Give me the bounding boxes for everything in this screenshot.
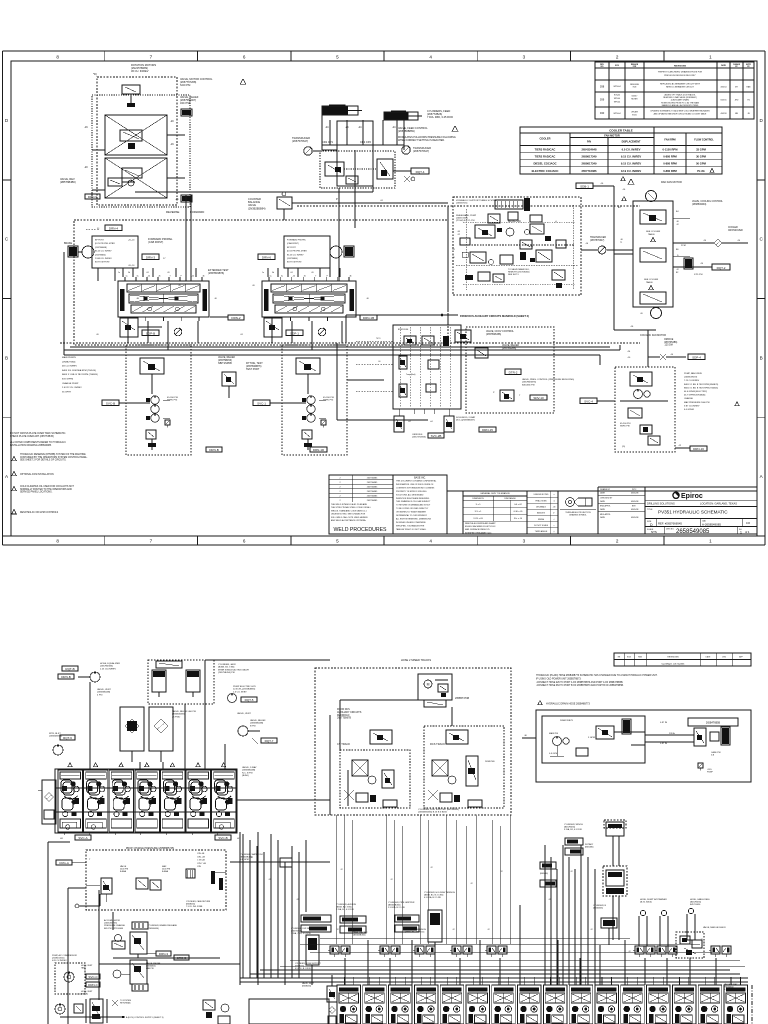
valve motor control label bbox=[180, 77, 246, 105]
svg-text:0-880 RPM: 0-880 RPM bbox=[663, 155, 677, 159]
tower bracing cylinder upper bbox=[604, 820, 626, 866]
tank recirc label bbox=[353, 931, 368, 937]
svg-text:INFORMATION. USE OR DISCLOSURE: INFORMATION. USE OR DISCLOSURE OF bbox=[396, 483, 434, 486]
svg-text:-16: -16 bbox=[214, 298, 217, 300]
svg-text:MANIFOLD AND ALL ACCESSORY ITE: MANIFOLD AND ALL ACCESSORY ITEMS bbox=[662, 104, 699, 107]
svg-text:(D): (D) bbox=[622, 446, 625, 448]
svg-text:X.XX ±.03: X.XX ±.03 bbox=[473, 518, 483, 520]
svg-text:(2657B45B76): (2657B45B76) bbox=[522, 382, 536, 384]
svg-text:RQT-7: RQT-7 bbox=[265, 739, 274, 743]
svg-text:IN INCHES UNLESS OTHERWISE: IN INCHES UNLESS OTHERWISE bbox=[396, 522, 426, 524]
svg-text:(B456): (B456) bbox=[242, 775, 249, 777]
left propel manifold bbox=[118, 276, 209, 322]
right propel manifold bbox=[262, 276, 356, 322]
size ref cad row bbox=[645, 519, 757, 527]
cylinder brake release bbox=[130, 922, 189, 960]
svg-text:SDP-B: SDP-B bbox=[146, 331, 155, 335]
svg-text:7.25 CU.IN/REV: 7.25 CU.IN/REV bbox=[684, 380, 700, 382]
svg-text:-20: -20 bbox=[640, 313, 643, 315]
svg-text:DRN-1B: DRN-1B bbox=[363, 316, 374, 320]
svg-text:STD PSI: STD PSI bbox=[694, 274, 703, 276]
svg-text:(2657576647): (2657576647) bbox=[292, 139, 308, 143]
svg-text:-12: -12 bbox=[676, 269, 679, 271]
prop charge pressure label bbox=[126, 847, 175, 850]
svg-text:SNPD PSI: SNPD PSI bbox=[620, 426, 630, 428]
charge box caption bbox=[186, 900, 211, 908]
svg-text:3: 3 bbox=[523, 539, 526, 544]
svg-text:(2656B456): (2656B456) bbox=[148, 928, 159, 930]
svg-text:4.5 B1A, B 2.5 RD: 4.5 B1A, B 2.5 RD bbox=[424, 896, 441, 899]
svg-text:B-BBA: B-BBA bbox=[120, 870, 127, 873]
svg-text:DIMENSION: DIMENSION bbox=[472, 498, 484, 500]
svg-text:SEE SHEET 2 FOR DETAILS OF CIR: SEE SHEET 2 FOR DETAILS OF CIRCUITS. bbox=[20, 459, 67, 462]
svg-text:OR INDIRECTLY IN ANY MANNER: OR INDIRECTLY IN ANY MANNER bbox=[396, 511, 426, 514]
svg-text:HOSES MOVED FROM P.T.O. AT THE: HOSES MOVED FROM P.T.O. AT THE MAIN bbox=[661, 101, 700, 104]
RQT-2 tagbox bbox=[673, 255, 730, 276]
svg-text:PLUG: PLUG bbox=[697, 169, 704, 173]
svg-text:-12: -12 bbox=[390, 879, 393, 881]
brake release lower cluster bbox=[113, 960, 161, 991]
svg-text:22.6CW--(2655B4B56): 22.6CW--(2655B4B56) bbox=[233, 689, 255, 691]
svg-text:PCM: PCM bbox=[681, 245, 686, 247]
tank inlet valve column bbox=[302, 975, 337, 1024]
svg-text:B: B bbox=[5, 356, 8, 361]
note denotes bbox=[12, 509, 59, 514]
svg-text:-12: -12 bbox=[700, 939, 703, 941]
note general arrangement bbox=[10, 441, 66, 447]
svg-text:4b: 4b bbox=[203, 276, 205, 278]
svg-text:MAIN PUMPS: MAIN PUMPS bbox=[62, 356, 76, 359]
brake sav label bbox=[508, 215, 542, 223]
svg-text:9.15 CU. IN/REV: 9.15 CU. IN/REV bbox=[621, 162, 642, 166]
pump electric label bbox=[228, 686, 258, 703]
svg-text:Epiroc: Epiroc bbox=[681, 493, 703, 500]
svg-text:33 GPM: 33 GPM bbox=[696, 148, 707, 152]
SDP-4 tagbox bbox=[688, 354, 705, 360]
svg-text:(2TB6. B1. 4.5 ROD): (2TB6. B1. 4.5 ROD) bbox=[405, 932, 425, 934]
rotation relief small comps bbox=[175, 109, 192, 202]
svg-text:WTC: WTC bbox=[632, 489, 637, 491]
svg-text:RAD FAN MOTOR: RAD FAN MOTOR bbox=[661, 181, 682, 184]
svg-text:6/03/17: 6/03/17 bbox=[632, 96, 638, 98]
svg-text:DWG NO.: DWG NO. bbox=[666, 529, 675, 531]
svg-text:CS TRACK: CS TRACK bbox=[337, 742, 350, 746]
svg-text:-20: -20 bbox=[167, 272, 170, 274]
main pump group 2 bbox=[282, 345, 347, 455]
svg-text:SVC-B: SVC-B bbox=[106, 401, 115, 405]
svg-text:INSTALLATION DRAWING 265854908: INSTALLATION DRAWING 2658549085. bbox=[10, 444, 52, 447]
right manifold sub valve bbox=[264, 318, 326, 337]
svg-text:265B5T4B: 265B5T4B bbox=[485, 761, 495, 763]
svg-text:Upd Mfgd 1 with Sytt366: Upd Mfgd 1 with Sytt366 bbox=[662, 662, 685, 665]
from dcs aux label sheet2 bbox=[337, 708, 362, 720]
svg-text:BASE INC.: BASE INC. bbox=[414, 477, 426, 480]
svg-text:1a: 1a bbox=[126, 276, 128, 278]
tower bracing cylinder lower bbox=[603, 866, 627, 940]
svg-text:CYLINDER, JACK: CYLINDER, JACK bbox=[218, 663, 236, 666]
svg-text:DRAWING SYMBOL: DRAWING SYMBOL bbox=[569, 514, 586, 517]
sheet 1 border frame bbox=[3, 51, 766, 545]
bank left comps bbox=[38, 780, 56, 824]
svg-text:3: 3 bbox=[523, 54, 526, 59]
svg-text:PRESSURE CHARGE: PRESSURE CHARGE bbox=[104, 924, 126, 927]
valve rev label group bbox=[60, 177, 135, 199]
DRN-1B tagbox bbox=[360, 315, 377, 320]
svg-text:1a: 1a bbox=[118, 272, 120, 274]
svg-text:MTBR SINGLE ACTING VALVE: MTBR SINGLE ACTING VALVE bbox=[218, 668, 249, 671]
sheet2 mini revision table bbox=[614, 653, 751, 666]
svg-text:B465 3 1 BB. B 7B74 RPM (B56B7: B465 3 1 BB. B 7B74 RPM (B56B76) bbox=[684, 384, 719, 386]
svg-text:4: 4 bbox=[429, 539, 432, 544]
long wire aux to left bbox=[337, 315, 450, 420]
svg-text:A-2658549085: A-2658549085 bbox=[702, 522, 721, 526]
svg-text:UPDATED SCHEMATIC TO ADD NEW C: UPDATED SCHEMATIC TO ADD NEW COLD WEATHE… bbox=[650, 110, 710, 113]
svg-text:WELD PROCEDURES: WELD PROCEDURES bbox=[333, 527, 387, 533]
svg-text:0.85 CU IN/REV: 0.85 CU IN/REV bbox=[52, 960, 67, 962]
svg-text:HYDRAULIC SUPPORT TABLE SYSTEM: HYDRAULIC SUPPORT TABLE SYSTEM bbox=[456, 199, 497, 202]
svg-text:B-BBA: B-BBA bbox=[162, 870, 169, 873]
svg-text:30+ ±.10: 30+ ±.10 bbox=[514, 518, 523, 520]
center cylinders cluster bbox=[301, 915, 331, 975]
svg-text:OPTIONAL DCS INSTALLATION: OPTIONAL DCS INSTALLATION bbox=[20, 473, 54, 476]
svg-text:B65 PSI NITROGEN: B65 PSI NITROGEN bbox=[104, 928, 124, 930]
feed cylinder 2 bbox=[384, 111, 422, 121]
svg-text:LOCATION: GARLAND, TEXAS: LOCATION: GARLAND, TEXAS bbox=[700, 502, 737, 506]
svg-text:COC/AOC FAN MOTOR: COC/AOC FAN MOTOR bbox=[640, 334, 666, 337]
svg-text:TIER3 RAD/CAC: TIER3 RAD/CAC bbox=[535, 148, 556, 152]
hose 2 speed tracks label bbox=[401, 658, 431, 662]
svg-text:-12: -12 bbox=[268, 879, 271, 881]
drawn by block bbox=[598, 488, 645, 519]
svg-text:COOLER: COOLER bbox=[728, 227, 738, 229]
center label cluster 1 bbox=[291, 928, 319, 935]
svg-text:B465 3 B. B16296A RPM (756516): B465 3 B. B16296A RPM (756516) bbox=[62, 369, 96, 372]
feed cylinder 1 bbox=[322, 105, 362, 116]
svg-text:COLD CLIMATES OIL USED FOR COO: COLD CLIMATES OIL USED FOR COOLANTS NOT bbox=[20, 485, 74, 488]
svg-text:CHECKED BY: CHECKED BY bbox=[600, 497, 613, 499]
svg-text:-24: -24 bbox=[192, 276, 195, 278]
svg-text:36 CU. IN/REV: 36 CU. IN/REV bbox=[131, 69, 149, 73]
svg-text:4: 4 bbox=[429, 54, 432, 59]
svg-text:Temp (Bod): Temp (Bod) bbox=[406, 374, 416, 376]
cylinder water inj label bbox=[240, 853, 292, 867]
svg-text:IF USING OLD POWER UNIT 265B5T: IF USING OLD POWER UNIT 265B5T6B73: bbox=[536, 678, 582, 680]
winch label bbox=[564, 824, 583, 831]
svg-text:THE WELD SYMBOLS A B1 Z1-BB AR: THE WELD SYMBOLS A B1 Z1-BB ARE bbox=[331, 503, 368, 506]
svg-text:WELDS. STANDARD CODE: AWS D1.1: WELDS. STANDARD CODE: AWS D1.1 bbox=[331, 509, 368, 512]
svg-text:0.97 IN: 0.97 IN bbox=[660, 743, 667, 745]
svg-text:EDGES. MACHINED FILLETS R.03: EDGES. MACHINED FILLETS R.03 bbox=[465, 525, 495, 528]
propel dashed enclosure bbox=[74, 220, 448, 345]
svg-text:SPECIFIED. TOLERANCES PER: SPECIFIED. TOLERANCES PER bbox=[396, 524, 425, 527]
svg-text:26575B4B5: 26575B4B5 bbox=[367, 491, 378, 493]
bottom right dashdot border bbox=[724, 983, 752, 1024]
svg-text:AND UPDATED FAN DRIVE CIRCUITS: AND UPDATED FAN DRIVE CIRCUITS AND COOLE… bbox=[654, 113, 707, 116]
main pump group 1 bbox=[126, 345, 191, 455]
svg-text:B665 3 1 BB. B 7B74 RPM (756B2: B665 3 1 BB. B 7B74 RPM (756B26) bbox=[62, 374, 98, 376]
svg-text:(B654B6): (B654B6) bbox=[540, 873, 548, 875]
svg-text:SEE COOLER: SEE COOLER bbox=[644, 279, 659, 281]
svg-text:4b: 4b bbox=[350, 276, 352, 278]
svg-text:DIM RANGE: DIM RANGE bbox=[504, 497, 516, 500]
title row bbox=[645, 509, 757, 519]
svg-text:SVC-B: SVC-B bbox=[218, 836, 227, 840]
svg-text:(2658549094): (2658549094) bbox=[692, 204, 707, 206]
svg-text:ANGLES: ANGLES bbox=[537, 512, 545, 515]
svg-text:CYLINDER, WATER INJ: CYLINDER, WATER INJ bbox=[240, 853, 263, 856]
svg-text:CHARGE PUMP: CHARGE PUMP bbox=[62, 382, 79, 385]
svg-text:(B654B6): (B654B6) bbox=[585, 847, 594, 849]
svg-text:CO: CO bbox=[746, 521, 751, 525]
svg-text:& AUXILIARY DRAIN.: & AUXILIARY DRAIN. bbox=[671, 99, 690, 102]
svg-text:(265B3B44B): (265B3B44B) bbox=[250, 723, 263, 725]
SVC-4 tagbox bbox=[580, 398, 615, 404]
aux valves dashed enclosure bbox=[448, 315, 554, 413]
svg-text:03/05/08: 03/05/08 bbox=[631, 517, 638, 519]
svg-text:VALVE, PRES. CONTROL (PRESSURE: VALVE, PRES. CONTROL (PRESSURE REDUCING) bbox=[522, 378, 574, 381]
svg-text:8: 8 bbox=[56, 54, 59, 59]
svg-text:CR1 CP1: CR1 CP1 bbox=[322, 140, 334, 144]
svg-text:HOSE, CABLE REEL: HOSE, CABLE REEL bbox=[690, 898, 711, 901]
charge pressure dashed box bbox=[75, 850, 226, 910]
fan circuit block bbox=[614, 186, 690, 337]
svg-text:C3N -0B: C3N -0B bbox=[197, 853, 205, 855]
fan pump label bbox=[684, 372, 739, 411]
svg-text:FAN RPM: FAN RPM bbox=[664, 139, 675, 142]
svg-text:C3N: C3N bbox=[197, 866, 201, 868]
svg-text:4/30/14: 4/30/14 bbox=[721, 87, 727, 89]
svg-text:DRN-3: DRN-3 bbox=[159, 952, 168, 956]
svg-text:45-200 PSI: 45-200 PSI bbox=[323, 397, 334, 399]
svg-text:DTR-2: DTR-2 bbox=[509, 370, 518, 374]
svg-text:2.6 F22 CU. IN/REV: 2.6 F22 CU. IN/REV bbox=[62, 387, 82, 389]
svg-text:34C PSI: 34C PSI bbox=[180, 101, 190, 105]
svg-text:2657T5B67B: 2657T5B67B bbox=[337, 717, 351, 720]
svg-text:3 GPM: 3 GPM bbox=[588, 737, 595, 739]
svg-text:9.15 CU. IN/REV: 9.15 CU. IN/REV bbox=[621, 155, 642, 159]
svg-text:C 3N -0B: C 3N -0B bbox=[197, 860, 206, 862]
svg-text:-12: -12 bbox=[250, 857, 253, 859]
svg-text:SNPD PSI: SNPD PSI bbox=[167, 400, 178, 402]
rotation motors group bbox=[84, 72, 190, 207]
svg-text:26575B4B5: 26575B4B5 bbox=[367, 482, 378, 484]
svg-text:-12: -12 bbox=[487, 929, 490, 931]
svg-text:DRN-1D: DRN-1D bbox=[313, 448, 325, 452]
svg-text:03/05/08: 03/05/08 bbox=[631, 509, 638, 511]
svg-text:50 GPM: 50 GPM bbox=[696, 162, 707, 166]
svg-text:(265B3B44B): (265B3B44B) bbox=[242, 770, 255, 772]
svg-text:PROP. CHARGE PRESSURE (2N5B6B5: PROP. CHARGE PRESSURE (2N5B6B5745) bbox=[126, 847, 175, 850]
svg-text:-24: -24 bbox=[148, 276, 151, 278]
svg-text:B665 3 1 BB. B 7B74 RPM (756B2: B665 3 1 BB. B 7B74 RPM (756B26) bbox=[684, 387, 718, 389]
valve cooling control label bbox=[692, 200, 724, 206]
svg-text:4/03/18: 4/03/18 bbox=[721, 113, 727, 115]
svg-text:-12: -12 bbox=[570, 871, 573, 873]
revision table bbox=[595, 62, 754, 119]
svg-text:4 PSI: 4 PSI bbox=[97, 694, 103, 696]
svg-text:CHARGE: CHARGE bbox=[684, 397, 694, 400]
svg-text:1: 1 bbox=[709, 539, 712, 544]
rotation motors label bbox=[131, 63, 156, 73]
finish symbol rows bbox=[527, 491, 558, 534]
svg-text:-24: -24 bbox=[146, 272, 149, 274]
CRG tagbox bbox=[56, 860, 86, 865]
svg-text:2654324648: 2654324648 bbox=[582, 148, 597, 152]
svg-text:CYLINDER, ROD SUPPORT (B457B4B: CYLINDER, ROD SUPPORT (B457B4B5) bbox=[418, 809, 459, 811]
svg-text:(CAB FIRST): (CAB FIRST) bbox=[148, 240, 163, 244]
svg-text:0-1150 RPM: 0-1150 RPM bbox=[663, 148, 679, 152]
svg-text:-24: -24 bbox=[290, 272, 293, 274]
svg-text:2658617349: 2658617349 bbox=[582, 155, 597, 159]
svg-text:B 26 B456: B 26 B456 bbox=[724, 989, 734, 991]
svg-text:BRAKE: BRAKE bbox=[64, 242, 73, 245]
bottom left small comps bbox=[203, 1000, 230, 1024]
hose number labels propel bbox=[96, 285, 369, 336]
svg-text:ORIFICES: ORIFICES bbox=[412, 434, 423, 436]
svg-text:1: 1 bbox=[740, 530, 742, 534]
DRN-16 tagbox bbox=[675, 445, 707, 451]
svg-text:5: 5 bbox=[336, 54, 339, 59]
svg-text:RETURN(B): RETURN(B) bbox=[120, 1002, 131, 1004]
svg-text:7: 7 bbox=[150, 54, 153, 59]
svg-text:AND WELD ACCEPTANCE CRITERIA.: AND WELD ACCEPTANCE CRITERIA. bbox=[331, 519, 366, 522]
left riser bundle sheet2 bbox=[545, 845, 595, 985]
svg-text:THIRD ANGLE: THIRD ANGLE bbox=[535, 530, 548, 533]
svg-text:MAX PRESSURE 5000 PSI: MAX PRESSURE 5000 PSI bbox=[684, 401, 710, 404]
svg-text:TABLE AT RIGHT. DO NOT SCALE.: TABLE AT RIGHT. DO NOT SCALE. bbox=[396, 528, 427, 531]
svg-text:WPS-64: WPS-64 bbox=[613, 86, 620, 88]
power unit right circuit bbox=[522, 718, 738, 774]
svg-text:3b: 3b bbox=[128, 272, 130, 274]
svg-text:-CONNECT HOSE 226 TO PORT A OF: -CONNECT HOSE 226 TO PORT A OF 265B5T6B7… bbox=[536, 681, 624, 684]
power unit inner circuit bbox=[542, 716, 645, 763]
note hydraulic tank warning bbox=[12, 453, 88, 462]
svg-text:0.97 IN: 0.97 IN bbox=[660, 722, 667, 724]
svg-text:DIESEL COC/AOC: DIESEL COC/AOC bbox=[533, 162, 556, 166]
svg-text:RQT-2: RQT-2 bbox=[717, 266, 726, 270]
svg-text:HOSE 2 SPEED TRACKS: HOSE 2 SPEED TRACKS bbox=[401, 658, 431, 662]
svg-text:(2657576647): (2657576647) bbox=[590, 240, 605, 242]
svg-text:BOTTOM PORT: BOTTOM PORT bbox=[95, 262, 110, 264]
svg-text:7: 7 bbox=[150, 539, 153, 544]
svg-text:NTS: NTS bbox=[651, 530, 657, 534]
svg-text:FLOW CONTROL: FLOW CONTROL bbox=[694, 139, 714, 142]
center label cluster 3 bbox=[388, 902, 419, 932]
svg-text:ENG APPVL: ENG APPVL bbox=[600, 505, 611, 508]
svg-text:-36: -36 bbox=[524, 735, 527, 737]
SVC-1 tagbox bbox=[253, 400, 306, 406]
svg-text:ALL NOTED COMPONENTS REFER TO: ALL NOTED COMPONENTS REFER TO HYDRAULIC bbox=[10, 441, 66, 444]
svg-text:(2657B666B): (2657B666B) bbox=[95, 247, 107, 249]
svg-text:-12: -12 bbox=[500, 871, 503, 873]
jack cylinder dashed box bbox=[148, 660, 214, 704]
svg-text:-CONNECT HOSE 363 TO PORT B OF: -CONNECT HOSE 363 TO PORT B OF 265B5T6B7… bbox=[536, 684, 624, 687]
svg-text:SCD PSI: SCD PSI bbox=[180, 83, 191, 87]
bottom tank rect bbox=[249, 999, 329, 1024]
svg-text:BP PORT: BP PORT bbox=[95, 240, 104, 242]
svg-text:VALVE, NEEDLE/CHECK: VALVE, NEEDLE/CHECK bbox=[703, 926, 726, 929]
svg-text:2658549085: 2658549085 bbox=[676, 529, 710, 535]
svg-text:BBB PSI: BBB PSI bbox=[146, 968, 154, 970]
SVC-B tagbox bbox=[102, 400, 150, 406]
svg-text:6/03/15: 6/03/15 bbox=[721, 100, 727, 102]
svg-text:(DCS PROPEL MTBR: (DCS PROPEL MTBR bbox=[95, 243, 115, 245]
svg-text:DRN-16: DRN-16 bbox=[693, 447, 704, 451]
svg-text:(2656B5B456) B 26 B 5 B456: (2656B5B456) B 26 B 5 B456 bbox=[418, 812, 448, 814]
track wires bbox=[330, 700, 452, 815]
svg-text:B1.26 CU. IN/REV: B1.26 CU. IN/REV bbox=[287, 254, 304, 256]
svg-text:PV351 HYDRAULIC SCHEMATIC: PV351 HYDRAULIC SCHEMATIC bbox=[658, 510, 728, 515]
svg-text:6.6 GPHM: 6.6 GPHM bbox=[684, 409, 694, 411]
DRN-B tagbox bbox=[206, 447, 222, 452]
svg-text:265B5T4T4B: 265B5T4T4B bbox=[455, 697, 469, 700]
svg-text:REF. #2657666945: REF. #2657666945 bbox=[658, 522, 682, 526]
svg-text:M: M bbox=[427, 683, 430, 687]
svg-text:TO VALVE MANIFOLD,: TO VALVE MANIFOLD, bbox=[508, 268, 530, 271]
svg-text:TO BE COPIED OR USED DIRECTLY: TO BE COPIED OR USED DIRECTLY bbox=[396, 508, 429, 510]
svg-text:B1 B2 B3 B4: B1 B2 B3 B4 bbox=[398, 329, 408, 331]
svg-text:B72 GPHM: B72 GPHM bbox=[62, 379, 73, 381]
svg-text:FULL WELD CALLOUTS USED HEREIN: FULL WELD CALLOUTS USED HEREIN bbox=[331, 516, 368, 519]
svg-text:(B456B): (B456B) bbox=[81, 993, 88, 995]
svg-text:-20,-24: -20,-24 bbox=[128, 265, 135, 267]
svg-text:(26565T45): (26565T45) bbox=[456, 203, 468, 205]
svg-text:-16: -16 bbox=[620, 239, 623, 241]
svg-text:-20: -20 bbox=[311, 272, 314, 274]
svg-text:-12: -12 bbox=[336, 929, 339, 931]
cylinder wrench label bbox=[405, 929, 427, 934]
vert cylinder mid bbox=[428, 910, 442, 975]
svg-text:SVC-2B: SVC-2B bbox=[431, 434, 442, 438]
svg-text:DATE: DATE bbox=[600, 492, 606, 495]
svg-text:-20: -20 bbox=[178, 285, 181, 287]
svg-text:WPS-64: WPS-64 bbox=[613, 113, 620, 115]
title block outline bbox=[329, 475, 757, 534]
DRN-4 tagbox bbox=[105, 225, 122, 231]
svg-text:5: 5 bbox=[336, 539, 339, 544]
valve 2way right label bbox=[242, 766, 257, 777]
svg-text:-20: -20 bbox=[84, 166, 88, 169]
svg-text:(2657B26456): (2657B26456) bbox=[486, 333, 501, 336]
valve relief label center bbox=[218, 356, 236, 398]
main vertical wires from feed valve bbox=[186, 150, 355, 281]
svg-text:-24: -24 bbox=[292, 276, 295, 278]
bank-to-bottom riser bundle bbox=[243, 834, 306, 978]
svg-text:INTERPRET PER ASME Y14.5: INTERPRET PER ASME Y14.5 bbox=[465, 531, 491, 534]
svg-text:DRN-6: DRN-6 bbox=[262, 255, 271, 259]
2 speed motor block bbox=[418, 674, 469, 707]
svg-text:-24: -24 bbox=[240, 334, 243, 336]
transducer right bbox=[402, 145, 431, 154]
svg-text:6.0 CU. IN/REV: 6.0 CU. IN/REV bbox=[622, 148, 641, 152]
svg-text:0-880 RPM: 0-880 RPM bbox=[663, 162, 677, 166]
svg-text:DENOTES AC OR GPM CONTROLS: DENOTES AC OR GPM CONTROLS bbox=[20, 511, 59, 514]
svg-text:1°: 1° bbox=[553, 513, 555, 515]
svg-text:(2657B22B6): (2657B22B6) bbox=[502, 347, 516, 350]
cooler crossover bbox=[673, 227, 748, 247]
valve feed control label bbox=[398, 126, 458, 142]
svg-text:2657716086: 2657716086 bbox=[582, 169, 597, 173]
svg-text:(2657B6B869): (2657B6B869) bbox=[398, 129, 415, 133]
svg-text:RCS TRACK: RCS TRACK bbox=[430, 742, 445, 746]
svg-text:COOLER: COOLER bbox=[539, 137, 550, 141]
svg-text:BOTTOM PORT: BOTTOM PORT bbox=[287, 262, 302, 264]
valve pressure reducing label bbox=[493, 378, 574, 401]
svg-text:(265B3B44B): (265B3B44B) bbox=[97, 692, 110, 694]
svg-text:DRAWN BY: DRAWN BY bbox=[600, 488, 611, 491]
svg-text:WPS-64: WPS-64 bbox=[614, 98, 620, 100]
svg-text:SVC-C: SVC-C bbox=[88, 975, 98, 979]
